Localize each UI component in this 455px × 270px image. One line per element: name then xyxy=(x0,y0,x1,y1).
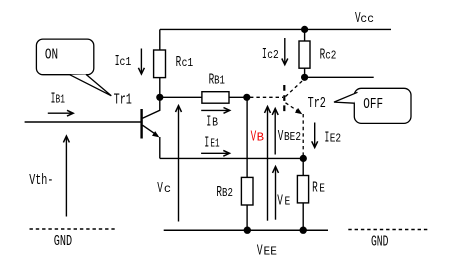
current arrow Ic2 xyxy=(282,38,288,65)
voltage arrow VBE2 xyxy=(272,109,278,155)
svg-text:c2: c2 xyxy=(267,48,279,62)
voltage arrow VB xyxy=(265,107,271,221)
resistor RB1 xyxy=(202,92,229,104)
wire emitter node to RE xyxy=(302,158,304,175)
svg-text:B: B xyxy=(257,130,264,144)
label VB (red) xyxy=(251,128,264,145)
label IE1 xyxy=(204,135,219,152)
svg-text:V: V xyxy=(277,192,283,209)
svg-text:OFF: OFF xyxy=(363,96,383,113)
transistor Q2 Tr2 emitter lead (dashed) xyxy=(286,103,300,112)
transistor Q2 Tr2 emitter arrowhead xyxy=(295,108,302,114)
wire RE bottom xyxy=(302,203,304,230)
voltage arrow Vth- xyxy=(63,136,69,217)
node VCC-Rc2 junction xyxy=(301,26,308,33)
svg-text:I: I xyxy=(262,46,267,63)
wire node B down to RB2 xyxy=(246,97,248,177)
transistor Q2 Tr2 collector lead (dashed) xyxy=(286,79,305,97)
svg-text:EE: EE xyxy=(264,244,277,258)
label IE2 xyxy=(325,129,342,146)
svg-text:E: E xyxy=(319,182,325,196)
wire dashed node B to Tr2 base xyxy=(250,96,283,98)
svg-text:Tr2: Tr2 xyxy=(308,95,326,112)
svg-text:GND: GND xyxy=(371,233,388,250)
transistor Q1 Tr1 base bar xyxy=(140,109,142,139)
current arrow IB1 xyxy=(48,110,73,116)
wire collector node to RB1 xyxy=(160,96,202,98)
transistor Q1 Tr1 collector lead xyxy=(143,97,160,118)
transistor Q1 Tr1 emitter arrowhead xyxy=(152,131,159,137)
wire RB1 to node B xyxy=(229,96,247,98)
label VEE xyxy=(257,242,277,259)
current arrow IE1 xyxy=(201,150,229,156)
node collector Tr1 xyxy=(156,94,163,101)
svg-text:I: I xyxy=(204,135,209,152)
label Rc1 xyxy=(176,54,194,71)
transistor Q1 Tr1 base lead wire xyxy=(25,121,141,123)
svg-text:cc: cc xyxy=(360,12,374,26)
wire emitter rail xyxy=(160,157,303,159)
svg-text:GND: GND xyxy=(54,233,72,250)
svg-text:c2: c2 xyxy=(325,49,336,63)
node B xyxy=(243,94,250,101)
wire VCC rail xyxy=(160,28,391,30)
svg-text:B2: B2 xyxy=(222,186,233,200)
node Rc2 bottom junction xyxy=(301,74,308,81)
svg-text:I: I xyxy=(325,129,330,146)
label IB1 xyxy=(51,90,65,107)
transistor Q2 Tr2 emitter drop wire (dashed) xyxy=(302,114,304,158)
label VBE2 xyxy=(278,128,301,145)
svg-text:B: B xyxy=(212,116,218,130)
wire Rc1 bottom xyxy=(159,78,161,98)
svg-text:R: R xyxy=(312,180,318,197)
current arrow IB xyxy=(201,108,230,114)
svg-text:E2: E2 xyxy=(330,131,341,145)
label IB xyxy=(206,114,218,131)
current arrow Ic1 xyxy=(138,49,144,75)
wire Rc1 top xyxy=(159,29,161,50)
svg-text:V: V xyxy=(278,128,284,145)
label RB2 xyxy=(216,184,233,201)
wire RB2 bottom xyxy=(246,205,248,230)
label Ic1 xyxy=(115,53,132,70)
label RE xyxy=(312,180,325,197)
svg-text:V: V xyxy=(157,180,163,197)
label VCC xyxy=(355,10,374,27)
resistor Rc1 xyxy=(154,50,166,78)
wire collector Tr2 stub xyxy=(305,76,374,78)
svg-text:Vth-: Vth- xyxy=(29,172,53,189)
node RE on VEE rail xyxy=(300,227,307,234)
svg-text:B1: B1 xyxy=(56,92,65,106)
label Rc2 xyxy=(320,47,337,64)
svg-text:c: c xyxy=(164,182,171,196)
svg-text:c1: c1 xyxy=(120,55,132,69)
wire Rc2 bottom xyxy=(304,68,306,77)
wire Rc2 top xyxy=(304,29,306,41)
transistor Q1 Tr1 emitter lead xyxy=(143,125,158,135)
resistor RE xyxy=(297,176,308,203)
voltage arrow VC xyxy=(176,106,182,222)
node RB2 on VEE rail xyxy=(244,227,251,234)
svg-text:Tr1: Tr1 xyxy=(114,91,132,108)
svg-text:I: I xyxy=(206,114,211,131)
svg-text:V: V xyxy=(257,242,263,259)
wire VEE rail xyxy=(164,229,328,231)
svg-text:c1: c1 xyxy=(182,56,194,70)
svg-text:V: V xyxy=(251,128,257,145)
transistor Q1 Tr1 emitter drop wire xyxy=(159,137,161,158)
svg-text:E1: E1 xyxy=(210,137,219,151)
svg-text:R: R xyxy=(176,54,182,71)
speech bubble OFF xyxy=(334,88,411,123)
label VC xyxy=(157,180,171,197)
transistor Q2 Tr2 base bar (dashed) xyxy=(283,85,285,114)
node emitter join xyxy=(300,155,307,162)
voltage arrow VE xyxy=(273,167,279,220)
svg-text:ON: ON xyxy=(45,46,58,63)
label VE xyxy=(277,192,290,209)
label Ic2 xyxy=(262,46,279,63)
svg-text:BE2: BE2 xyxy=(284,130,301,144)
label RB1 xyxy=(209,71,225,88)
svg-text:E: E xyxy=(285,194,291,208)
speech bubble ON xyxy=(36,39,111,96)
resistor RB2 xyxy=(241,177,253,205)
resistor Rc2 xyxy=(299,41,310,68)
ground dashed line right xyxy=(348,229,430,231)
ground dashed line left xyxy=(30,228,115,230)
svg-text:B1: B1 xyxy=(214,73,225,87)
current arrow IE2 xyxy=(312,123,318,148)
